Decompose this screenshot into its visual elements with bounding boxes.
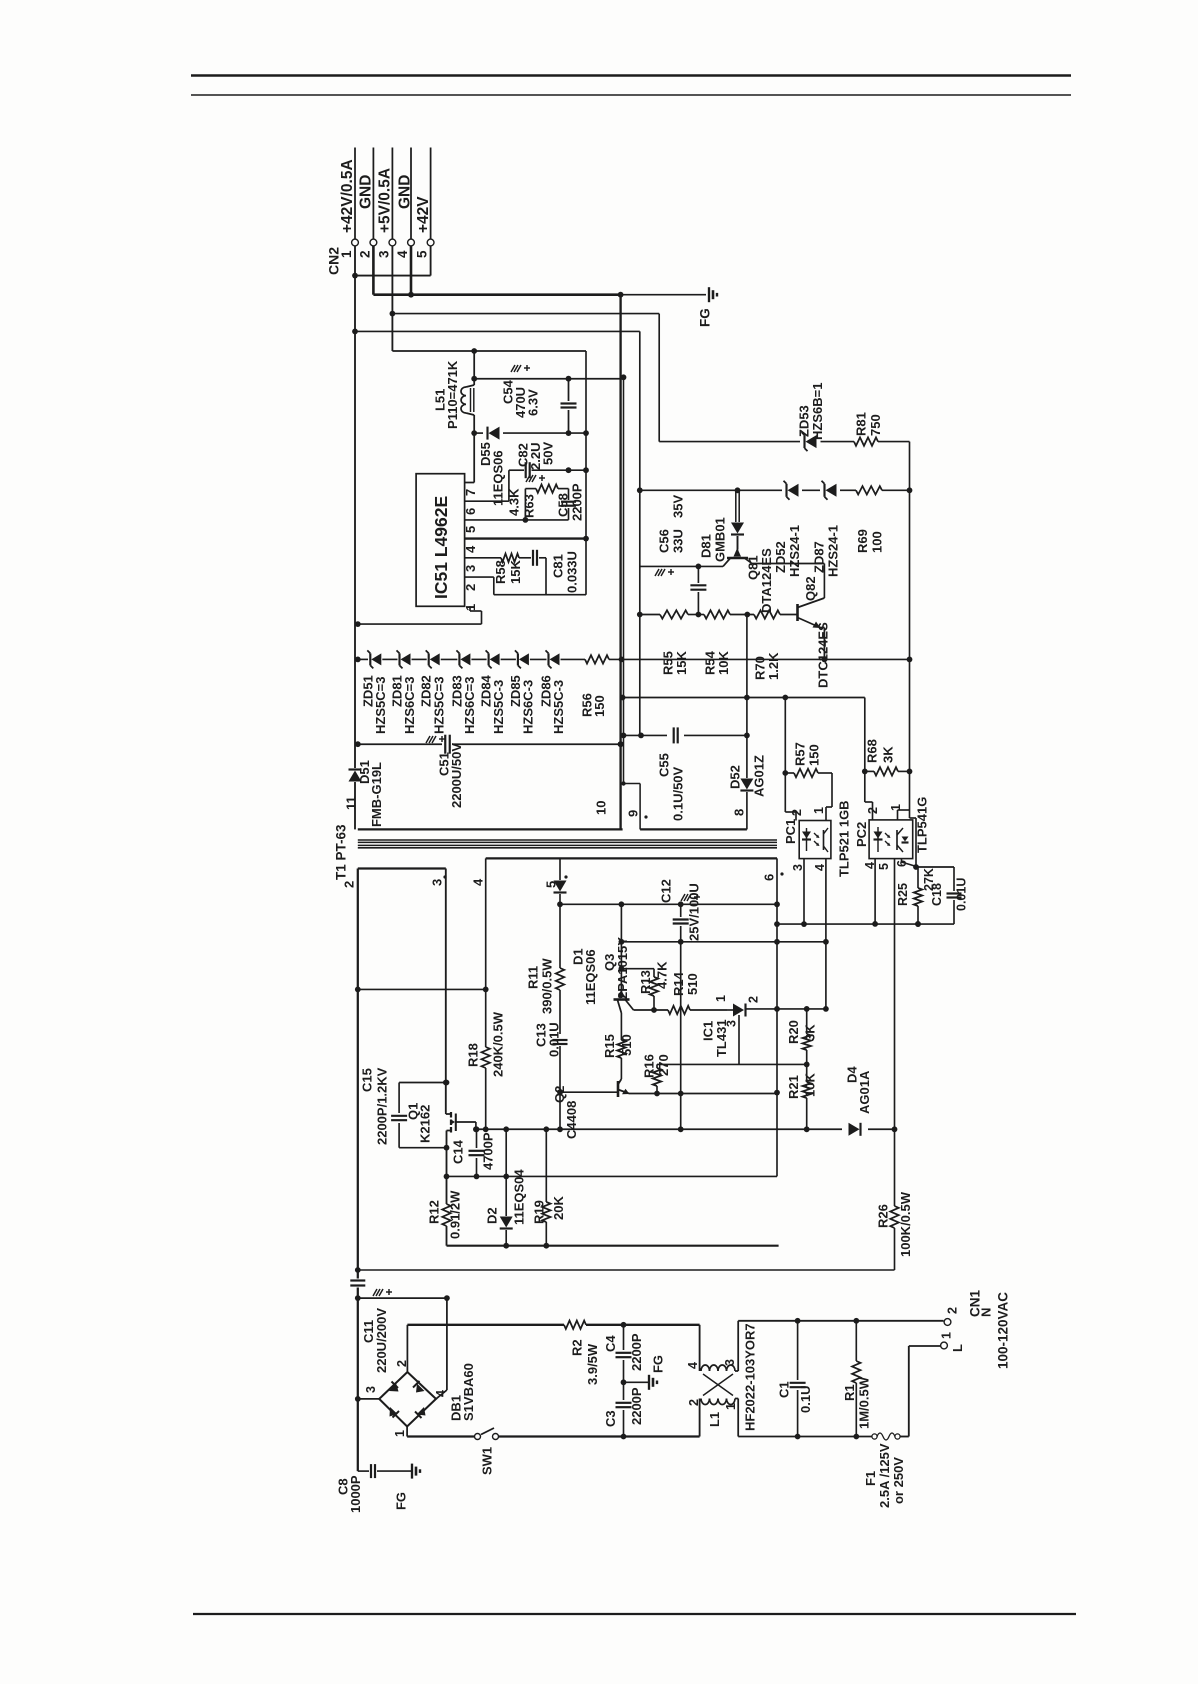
label AG01A [857, 1070, 872, 1114]
wire CN2 pin3 +5V drop [390, 246, 396, 351]
wire x640 vertical [639, 331, 641, 735]
label CN1 pin1 [940, 1332, 954, 1339]
svg-text:5: 5 [463, 526, 478, 533]
svg-text:R58: R58 [493, 560, 508, 584]
label FMB-G19L [369, 762, 384, 827]
IC51 pin number 3 [463, 565, 478, 572]
wire x747 vertical upper [746, 615, 748, 736]
wire ZD52 line left [637, 487, 782, 493]
label C13 [533, 1023, 548, 1047]
svg-text:F1: F1 [863, 1471, 878, 1486]
label Q82 [803, 576, 818, 601]
inductor L51 [461, 379, 477, 436]
label DTC124ES [815, 622, 830, 688]
label L1 pin3 [723, 1359, 737, 1366]
zener ZD51 [367, 650, 381, 668]
svg-text:IC51 L4962E: IC51 L4962E [431, 496, 451, 599]
zener ZD85 [515, 650, 529, 668]
label 2200P of C3 [629, 1387, 644, 1425]
label Q81 [745, 555, 760, 580]
label 25V/100U [686, 883, 701, 941]
label ZD81 [389, 675, 404, 707]
wire sense vertical x586 [583, 351, 589, 595]
label 0.033U [564, 551, 579, 593]
svg-text:GND: GND [358, 175, 375, 209]
resistor R56 [585, 655, 609, 663]
polarity C11 [373, 1289, 392, 1296]
svg-text:R68: R68 [864, 739, 879, 763]
svg-text:2: 2 [341, 881, 356, 888]
wire Q3 base line [634, 1009, 669, 1011]
label 390/0.5W [539, 958, 554, 1014]
label DTA124ES [759, 548, 774, 613]
svg-text:Q82: Q82 [803, 576, 818, 601]
diode D2 [500, 1129, 513, 1248]
label 2200U/50V [449, 743, 464, 808]
svg-text:100-120VAC: 100-120VAC [995, 1292, 1010, 1369]
svg-text:8: 8 [731, 809, 746, 816]
label 1M/0.5W [856, 1376, 871, 1429]
wire pin1 path [355, 606, 482, 627]
wire +5V branch line [392, 313, 659, 315]
wire TL431 ref line [657, 1062, 810, 1068]
wire pin5 line [465, 517, 569, 523]
svg-text:510: 510 [619, 1034, 634, 1056]
opto PC2 internals [874, 827, 909, 852]
svg-text:R63: R63 [521, 494, 536, 518]
wire C51 line [355, 741, 624, 747]
svg-text:FMB-G19L: FMB-G19L [369, 762, 384, 827]
wire GND bus to FG [621, 294, 706, 296]
label R63 [521, 494, 536, 518]
label HZS24-1 of ZD52 [787, 525, 802, 577]
svg-text:15K: 15K [674, 651, 689, 675]
transformer T1 primary winding 4-5-6 [486, 857, 777, 859]
wire between ZD52 ZD87 [802, 489, 820, 491]
label L1 pin1 [724, 1403, 738, 1410]
label 20K [551, 1196, 566, 1220]
label +42V/0.5A [339, 159, 356, 233]
svg-text:C1: C1 [776, 1381, 791, 1398]
svg-text:3: 3 [791, 864, 805, 871]
wire +5V branch down [658, 314, 660, 442]
wire R13 tap [619, 966, 655, 972]
resistor R14 [668, 1006, 727, 1014]
label 270 [656, 1054, 671, 1076]
page footer rule [193, 1613, 1076, 1615]
svg-text:AG01Z: AG01Z [751, 755, 766, 797]
svg-text:2: 2 [790, 809, 804, 816]
zener ZD81 [397, 650, 411, 668]
svg-text:11: 11 [343, 796, 358, 810]
svg-text:4: 4 [813, 864, 827, 871]
svg-text:510: 510 [685, 973, 700, 995]
svg-text:5: 5 [415, 250, 430, 258]
resistor R25 [914, 867, 922, 927]
label PC2 pin4 [863, 862, 877, 869]
resistor R57 [785, 769, 832, 777]
zener ZD52 [784, 481, 799, 500]
CN2 pin numbers 1-5 [339, 250, 430, 258]
svg-text:10K: 10K [802, 1073, 817, 1097]
wire D55 line to x586 [569, 432, 587, 434]
label SW1 [479, 1447, 494, 1475]
wire secondary vertical b [621, 374, 627, 783]
label HZS24-1 of ZD87 [825, 525, 840, 577]
label L1 [707, 1412, 722, 1427]
label R25 [896, 883, 910, 906]
label PC2 pin5 [877, 863, 891, 870]
label R69 [855, 529, 870, 553]
label C81 [550, 554, 565, 578]
label Q3 [602, 954, 617, 971]
wire ZD87 to R69 [840, 489, 856, 491]
svg-text:+42V/0.5A: +42V/0.5A [339, 159, 356, 233]
label 510 of R14 [685, 973, 700, 995]
label C18 [930, 883, 944, 906]
label 0.91/2W [447, 1190, 462, 1239]
label F1 [863, 1471, 878, 1486]
svg-text:HZS5C=3: HZS5C=3 [373, 677, 388, 734]
label TL431 pin1 [714, 995, 728, 1002]
label R12 [426, 1200, 441, 1224]
svg-text:HZS5C-3: HZS5C-3 [551, 680, 566, 734]
wire AC line R2 [407, 1322, 699, 1328]
opto PC1 box [799, 821, 831, 859]
label 3K of R68 [880, 746, 895, 763]
IC51 pin number 7 [463, 489, 478, 496]
label PC2 pin6 [895, 860, 909, 867]
label 15K [674, 651, 689, 675]
wire Q2 emitter line [629, 1091, 777, 1097]
svg-text:2: 2 [866, 807, 880, 814]
wire PC1 pin2 riser [782, 698, 796, 821]
IC51 pin number 2 [463, 584, 478, 591]
svg-text:4700P: 4700P [480, 1132, 495, 1170]
wire CN2 pin1 +42V vertical rail upper [352, 246, 358, 656]
label TLP521 1GB [836, 800, 851, 877]
wire pin7 riser [465, 433, 475, 482]
svg-text:0.1U: 0.1U [798, 1386, 813, 1413]
svg-text:220U/200V: 220U/200V [374, 1308, 389, 1373]
wire primary GND rail [447, 1245, 779, 1247]
label R2 [569, 1339, 584, 1356]
label DB1 pin2 [395, 1360, 409, 1367]
label R54 [702, 650, 717, 675]
resistor R12 [442, 1204, 450, 1246]
label HZS5C=3 [431, 677, 446, 734]
label R57 [792, 742, 807, 766]
inductor L1 common mode choke [701, 1365, 735, 1405]
label 50V [540, 442, 555, 465]
label D2 [484, 1207, 499, 1224]
svg-text:2: 2 [687, 1399, 701, 1406]
svg-text:HZS6C=3: HZS6C=3 [402, 677, 417, 734]
svg-text:4.3K: 4.3K [506, 488, 521, 516]
svg-text:1: 1 [812, 807, 826, 814]
svg-text:C4: C4 [603, 1335, 618, 1352]
polarity C56 [655, 569, 674, 576]
svg-text:270: 270 [656, 1054, 671, 1076]
label ZD51 [360, 675, 375, 707]
svg-text:6.3V: 6.3V [525, 389, 540, 416]
label R58 [493, 560, 508, 584]
wire R54-R70 [730, 612, 754, 618]
svg-text:C15: C15 [359, 1068, 374, 1092]
label ZD86 [538, 675, 553, 707]
capacitor C51 [445, 735, 450, 754]
svg-text:11EQS04: 11EQS04 [511, 1169, 526, 1225]
wire rail y1176 [447, 1174, 778, 1180]
capacitor C8 [358, 1464, 411, 1478]
transistor Q2 [560, 1079, 630, 1097]
label HZS5C=3 [373, 677, 388, 734]
svg-text:C4408: C4408 [564, 1101, 579, 1139]
label GND pin4 [397, 175, 414, 209]
svg-text:+5V/0.5A: +5V/0.5A [377, 168, 394, 233]
svg-text:3: 3 [364, 1386, 378, 1393]
label 1.2K [766, 652, 781, 680]
capacitor C55 [674, 727, 678, 743]
resistor R21 [803, 1064, 811, 1132]
svg-text:4: 4 [686, 1362, 700, 1369]
label 4700P [480, 1132, 495, 1170]
capacitor C58 [561, 489, 576, 520]
label D52 [727, 765, 742, 789]
label R20 [786, 1020, 801, 1044]
svg-text:390/0.5W: 390/0.5W [539, 958, 554, 1014]
wire Q3 emitter riser [619, 901, 625, 998]
svg-text:3K: 3K [802, 1024, 817, 1041]
svg-text:240K/0.5W: 240K/0.5W [490, 1011, 505, 1077]
label 2200P of C58 [569, 483, 584, 521]
svg-text:35V: 35V [670, 495, 685, 518]
label 3.9/5W [585, 1343, 600, 1385]
label 27K [922, 868, 936, 891]
label 150 [592, 695, 607, 717]
wire PC2 pin4 drop [872, 859, 878, 927]
ground FG top [709, 287, 717, 302]
wire R55-R54 [688, 614, 704, 616]
label T1 pin6 [761, 872, 783, 881]
label Q2 [552, 1086, 567, 1103]
label PC1 [783, 819, 798, 844]
svg-text:HZS6C-3: HZS6C-3 [520, 680, 535, 734]
transistor Q82 [798, 598, 825, 659]
resistor R58 [465, 554, 531, 562]
diode D55 [488, 427, 500, 440]
svg-text:2200P: 2200P [629, 1387, 644, 1425]
label K2162 [417, 1105, 432, 1143]
svg-text:C81: C81 [550, 554, 565, 578]
label C4 [603, 1335, 618, 1352]
svg-text:11EQS06: 11EQS06 [490, 450, 505, 506]
wire DB1 left stub [358, 1398, 379, 1400]
label R15 [602, 1034, 617, 1058]
wire C82 line [509, 467, 586, 473]
wire aux line y904 [560, 901, 780, 907]
zener ZD82 [426, 650, 440, 668]
svg-text:1: 1 [940, 1332, 954, 1339]
label R81 [853, 412, 868, 436]
svg-text:3: 3 [376, 250, 391, 258]
svg-text:C56: C56 [656, 529, 671, 553]
label 35V [670, 495, 685, 518]
svg-text:PC2: PC2 [854, 822, 869, 847]
wire ZD53 line [659, 441, 909, 443]
capacitor C12 [673, 904, 689, 1132]
svg-text:AG01A: AG01A [857, 1070, 872, 1114]
label 3K of R20 [802, 1024, 817, 1041]
label ZD53 [796, 405, 811, 437]
svg-text:C14: C14 [450, 1139, 465, 1164]
svg-text:N: N [978, 1308, 993, 1317]
resistor R2 [564, 1321, 586, 1329]
label PC1 pin2 [790, 809, 804, 816]
svg-text:3: 3 [725, 1020, 739, 1027]
wire T1 pin5 drop [559, 858, 561, 880]
ground FG mid [624, 1375, 658, 1390]
svg-text:1: 1 [393, 1430, 407, 1437]
wire L1 pin1 drop [735, 1399, 738, 1437]
svg-text:1000P: 1000P [348, 1475, 363, 1513]
wire PC1 pin4 drop [823, 859, 829, 1012]
label R14 [671, 971, 686, 996]
wire main right vertical [910, 490, 919, 870]
label 470U [513, 387, 528, 418]
svg-text:T1 PT-63: T1 PT-63 [333, 824, 348, 880]
label C1 [776, 1381, 791, 1398]
diode D52 [740, 735, 753, 829]
svg-text:R15: R15 [602, 1034, 617, 1058]
connector CN2 pin stubs and circles [352, 148, 434, 246]
label PC1 pin4 [813, 864, 827, 871]
label D51 [357, 760, 372, 784]
svg-text:3: 3 [723, 1359, 737, 1366]
label 150 of R57 [806, 744, 821, 766]
transistor Q1 K2162 MOSFET [446, 1112, 476, 1148]
resistor R18 and T1 pin4 drop [482, 858, 490, 1132]
resistor R55 [660, 610, 688, 618]
label pin 9 [625, 810, 647, 819]
wire left +310V rail [355, 869, 361, 1302]
label HF2022-103YOR7 [742, 1323, 757, 1431]
svg-text:HZS24-1: HZS24-1 [787, 525, 802, 577]
polarity C51 [426, 736, 445, 743]
wire GND bus [373, 246, 623, 298]
wire DB1 top riser [406, 1325, 408, 1372]
label GMB01 [712, 517, 727, 562]
svg-text:7: 7 [463, 489, 478, 496]
svg-text:3.9/5W: 3.9/5W [585, 1343, 600, 1385]
label ZD82 [419, 675, 434, 707]
label 0.1U/50V [670, 766, 685, 821]
wire Q81 collector line [640, 564, 723, 570]
label C56 [656, 529, 671, 553]
wire +5V sense line A [392, 348, 586, 354]
label C12 [658, 879, 673, 903]
label HZS6C=3 [402, 677, 417, 734]
wire R70 to Q82 base [780, 614, 798, 616]
svg-text:ZD52: ZD52 [773, 541, 788, 573]
label 2200P/1.2KV [374, 1067, 389, 1145]
svg-text:K2162: K2162 [417, 1105, 432, 1143]
IC51 pin number 6 [463, 508, 478, 515]
label FG top [697, 308, 712, 327]
label ZD52 [773, 541, 788, 573]
svg-text:1M/0.5W: 1M/0.5W [856, 1376, 871, 1429]
svg-text:FG: FG [697, 308, 712, 327]
wire Q81 base to Q82 collector [745, 559, 824, 599]
svg-text:3: 3 [429, 879, 444, 886]
wire R68 to PC2 pin2 [865, 771, 873, 820]
label R18 [465, 1043, 480, 1067]
transistor Q81 [723, 536, 748, 566]
label D55 [478, 442, 493, 466]
svg-text:TLP521 1GB: TLP521 1GB [836, 800, 851, 877]
label 11EQS06 [490, 450, 505, 506]
wire pin2 path [465, 577, 586, 595]
wire AC bottom line right [738, 1434, 871, 1440]
resistor R13 [650, 969, 658, 1013]
diode D51 [349, 656, 362, 829]
svg-text:33U: 33U [670, 529, 685, 553]
svg-text:3K: 3K [880, 746, 895, 763]
wire PC2 pin6 to node [902, 859, 919, 867]
label 220U/200V [374, 1308, 389, 1373]
svg-text:R57: R57 [792, 742, 807, 766]
transformer T1 core [358, 840, 777, 848]
svg-text:HF2022-103YOR7: HF2022-103YOR7 [742, 1323, 757, 1431]
label R13 [638, 970, 653, 994]
label C8 [335, 1478, 350, 1495]
label C3 [603, 1410, 618, 1427]
label IC51 L4962E [431, 496, 451, 599]
label C4408 [564, 1101, 579, 1139]
svg-text:DTC124ES: DTC124ES [815, 622, 830, 688]
wire C55 line [624, 733, 750, 739]
wire CN2 pin2 GND drop [372, 246, 375, 295]
op-amp IC1 TL431 [727, 1004, 826, 1065]
label L1 pin4 [686, 1362, 700, 1369]
wire L51 top feed [473, 351, 475, 379]
connector CN1 pin2 circle [944, 1319, 951, 1326]
label 4.7K of R13 [654, 961, 669, 989]
rectifier DB1 bridge [379, 1372, 436, 1427]
resistor R19 [542, 1129, 550, 1248]
label D4 [844, 1066, 859, 1083]
capacitor C81 [533, 550, 546, 595]
svg-text:0.1U/50V: 0.1U/50V [670, 766, 685, 821]
svg-text:C58: C58 [555, 493, 570, 517]
label 0.1U [798, 1386, 813, 1413]
label 6.3V [525, 389, 540, 416]
svg-text:GND: GND [397, 175, 414, 209]
svg-text:HZS6B=1: HZS6B=1 [810, 383, 825, 440]
capacitor C82 [526, 462, 530, 478]
wire +42V branch line [355, 330, 640, 332]
svg-text:L1: L1 [707, 1412, 722, 1427]
svg-text:150: 150 [592, 695, 607, 717]
label TL431 pin2 [747, 996, 761, 1003]
resistor R81 [854, 437, 878, 445]
svg-text:FG: FG [393, 1492, 408, 1510]
svg-text:2: 2 [357, 250, 372, 258]
capacitor C18 [918, 867, 962, 924]
label L51 [432, 389, 447, 411]
svg-text:D2: D2 [484, 1207, 499, 1224]
wire pin6 line [465, 470, 509, 501]
